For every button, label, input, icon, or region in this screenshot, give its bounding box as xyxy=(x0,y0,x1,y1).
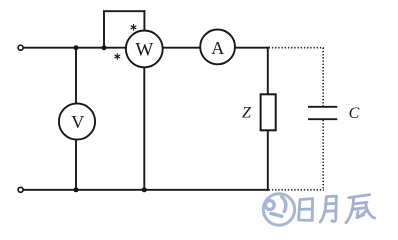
capacitor C top plate xyxy=(308,106,337,108)
ammeter A body xyxy=(200,30,235,65)
wire voltage-coil loop top horizontal xyxy=(103,10,145,12)
wire vertical: voltmeter branch upper xyxy=(75,48,77,104)
wire bottom rail xyxy=(23,189,268,191)
wire dotted: bottom rail extension to capacitor xyxy=(269,189,324,191)
polarity mark asterisk (voltage coil) xyxy=(131,25,136,31)
node junction: voltmeter return on bottom rail xyxy=(74,187,79,192)
terminal J2 bottom-left input xyxy=(18,187,23,192)
svg-text:V: V xyxy=(71,112,84,132)
watermark text 日 xyxy=(299,199,313,221)
wire voltage-coil loop right vertical into wattmeter xyxy=(143,10,145,31)
svg-text:W: W xyxy=(135,39,153,60)
svg-text:C: C xyxy=(349,105,360,122)
wire dotted: capacitor branch upper vertical xyxy=(322,48,324,106)
node junction: wattmeter return on bottom rail xyxy=(142,187,147,192)
wire top rail: ammeter to Z corner xyxy=(235,47,269,49)
wire dotted: top rail extension to capacitor xyxy=(269,47,324,49)
wire top rail: terminal to wattmeter xyxy=(23,47,126,49)
watermark logo ring xyxy=(263,194,294,225)
wire voltage-coil loop left vertical xyxy=(103,10,105,48)
voltmeter V body xyxy=(59,103,95,139)
polarity mark asterisk (current coil) xyxy=(115,54,120,60)
wire top rail: wattmeter to ammeter xyxy=(163,47,201,49)
terminal J1 top-left input xyxy=(18,45,23,50)
wire vertical: corner down to impedance Z xyxy=(267,47,269,95)
node junction: voltmeter tap on top rail xyxy=(74,45,79,50)
svg-text:Z: Z xyxy=(242,105,252,122)
wire vertical: voltmeter branch lower xyxy=(75,139,77,190)
wire vertical: impedance Z to bottom rail xyxy=(267,130,269,190)
node junction: wattmeter voltage-coil tap on top rail xyxy=(102,45,107,50)
wire vertical: wattmeter current-coil return to bottom rail xyxy=(143,67,145,190)
watermark text 辰 xyxy=(346,195,375,223)
svg-text:A: A xyxy=(211,38,224,58)
capacitor C bottom plate xyxy=(308,118,337,120)
wire dotted: capacitor branch lower vertical xyxy=(322,120,324,191)
impedance Z body (rectangle) xyxy=(261,94,276,130)
wattmeter W body xyxy=(126,31,163,68)
watermark text 月 xyxy=(320,196,336,222)
